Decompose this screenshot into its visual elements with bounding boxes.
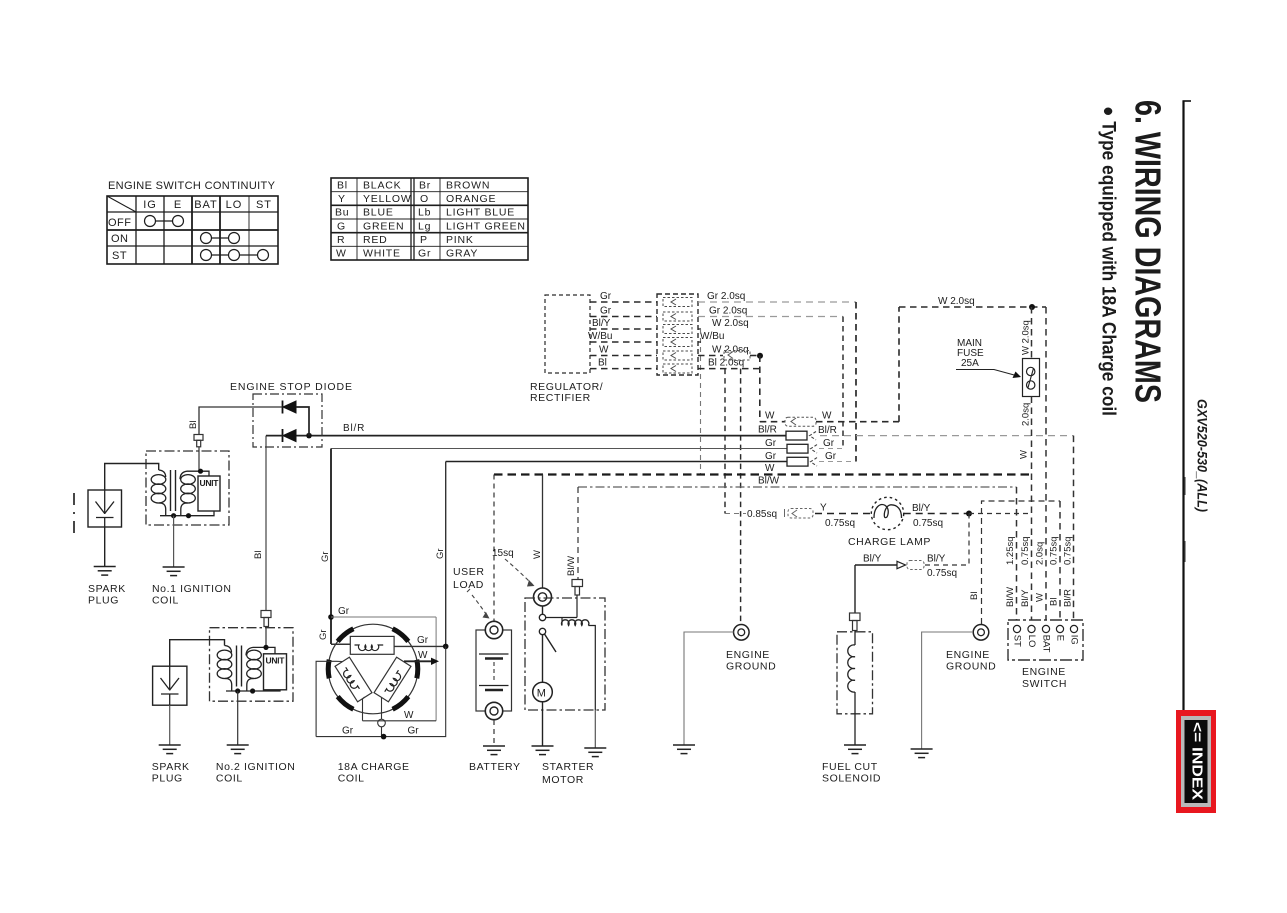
svg-text:Bl/R: Bl/R	[818, 425, 837, 436]
engine switch terminal labels	[1011, 635, 1079, 653]
wire Bl No2 coil drop	[265, 436, 267, 611]
wire Gr row2 drop	[842, 317, 844, 449]
spark plug 2 ground wire	[169, 705, 171, 745]
No2 coil inline connector	[261, 611, 271, 627]
fuel cut solenoid box	[837, 632, 873, 714]
svg-text:SPARK: SPARK	[88, 583, 126, 595]
engine stop diode box	[253, 394, 322, 447]
svg-text:Gr: Gr	[338, 606, 350, 617]
svg-text:Bl: Bl	[969, 592, 980, 600]
18A charge coil label	[338, 761, 410, 785]
junction dot Gr right	[443, 644, 449, 650]
relay contact link	[546, 617, 577, 619]
svg-text:G: G	[337, 220, 346, 232]
wire color code table text	[335, 180, 526, 260]
svg-text:W: W	[418, 650, 428, 661]
junction dot Bl/R at diode	[306, 433, 312, 439]
solenoid coil feed	[576, 595, 578, 618]
continuity row ST contacts BAT-LO-ST	[201, 250, 269, 261]
svg-text:● Type equipped with 18A Charg: ● Type equipped with 18A Charge coil	[1098, 106, 1120, 416]
spark plug 1 label	[88, 583, 126, 607]
svg-text:Gr: Gr	[765, 451, 777, 462]
wire W 2.0sq row3 vertical drop	[700, 329, 702, 475]
wire IG drop	[1073, 436, 1075, 620]
wire Bl/R solid run	[296, 435, 786, 437]
svg-text:OFF: OFF	[108, 217, 132, 229]
Y wire dashes to lamp	[815, 513, 872, 515]
spark plug 1 electrode symbol	[96, 490, 115, 527]
junction dot bottom	[381, 734, 387, 740]
svg-text:Gr: Gr	[600, 306, 612, 317]
harness wire labels right of connector	[700, 291, 749, 369]
wire Bl 2.0sq row6 horizontal	[698, 368, 760, 370]
starter motor label	[542, 761, 594, 786]
svg-text:STARTER: STARTER	[542, 761, 594, 773]
wire Bl/W drop to starter connector	[577, 487, 579, 579]
svg-text:YELLOW: YELLOW	[363, 193, 412, 205]
wire Bl row6 drop to engine ground	[740, 369, 742, 624]
charge lamp	[871, 497, 903, 529]
D2 left corner to No2 drop	[266, 435, 283, 437]
main fuse body	[1023, 359, 1040, 397]
battery ground	[483, 746, 505, 755]
No1 coil ground wire	[173, 516, 175, 567]
svg-text:ENGINE STOP DIODE: ENGINE STOP DIODE	[230, 381, 353, 393]
wire W riser to top run	[898, 307, 900, 422]
No1 coil core	[170, 470, 172, 511]
stator frame top line	[331, 616, 436, 618]
wire battery riser dashed	[493, 475, 495, 622]
svg-text:W: W	[1019, 450, 1030, 459]
right engine ground earth	[911, 749, 933, 758]
main fuse label	[957, 338, 984, 369]
svg-text:2.0sq: 2.0sq	[1035, 542, 1046, 565]
svg-text:0.75sq: 0.75sq	[1063, 536, 1074, 565]
battery top terminal	[476, 630, 512, 711]
Gr bullet connector 2	[787, 457, 817, 466]
solenoid coil	[562, 620, 589, 626]
left charge winding	[335, 657, 372, 702]
Gr bottom return line	[316, 646, 446, 736]
svg-text:USER: USER	[453, 566, 485, 578]
svg-text:Bl/Y: Bl/Y	[912, 503, 931, 514]
svg-text:UNIT: UNIT	[200, 478, 220, 488]
svg-text:GRAY: GRAY	[446, 248, 478, 260]
svg-text:Gr: Gr	[823, 438, 835, 449]
continuity row OFF contacts IG-E	[145, 216, 184, 227]
svg-text:IG: IG	[143, 199, 157, 211]
svg-text:MOTOR: MOTOR	[542, 774, 584, 786]
right engine ground label	[946, 649, 996, 673]
No1 coil bottom bus	[160, 511, 214, 516]
No1 unit top wire and dot	[187, 471, 209, 476]
svg-text:W: W	[765, 463, 775, 474]
right charge winding	[374, 657, 411, 702]
svg-text:Y: Y	[338, 193, 346, 205]
fuel solenoid ground	[844, 745, 866, 754]
svg-text:0.75sq: 0.75sq	[927, 568, 957, 579]
svg-text:6. WIRING DIAGRAMS: 6. WIRING DIAGRAMS	[1128, 100, 1169, 403]
No1 coil primary winding	[180, 471, 195, 516]
svg-text:Lg: Lg	[418, 220, 431, 232]
svg-text:SPARK: SPARK	[152, 761, 190, 773]
right engine ground symbol	[973, 625, 989, 641]
wire LO drop with fuse riser	[1031, 307, 1033, 359]
wire connector to No1 unit	[198, 447, 200, 471]
wire Gr thin dashed to drop	[819, 448, 843, 450]
wire lamp to junction	[904, 513, 969, 515]
W link inline connector	[785, 417, 816, 426]
svg-text:E: E	[1054, 635, 1065, 641]
svg-text:Bl: Bl	[188, 421, 199, 429]
svg-text:Gr: Gr	[318, 629, 329, 640]
junction dot Gr at top	[328, 614, 334, 620]
spark plug 2 ground	[159, 745, 181, 754]
solenoid coil risers	[561, 618, 563, 626]
lamp coil squiggle	[355, 645, 384, 651]
svg-text:0.85sq: 0.85sq	[747, 509, 777, 520]
wire Bl row6 drop to lamp line	[724, 369, 726, 514]
regulator output wires (6 stubs)	[590, 302, 657, 369]
diode D1	[283, 401, 297, 414]
junction dot Bl/Y	[966, 511, 972, 517]
svg-text:No.2 IGNITION: No.2 IGNITION	[216, 761, 296, 773]
battery ground wire	[493, 720, 495, 746]
spark plug 2 electrode symbol	[161, 666, 180, 705]
user load arrow	[467, 589, 490, 619]
svg-text:GREEN: GREEN	[363, 220, 404, 232]
Bl/R bullet connector	[786, 431, 816, 440]
svg-text:Bl: Bl	[253, 551, 264, 559]
svg-text:ENGINE SWITCH CONTINUITY: ENGINE SWITCH CONTINUITY	[108, 180, 276, 192]
wire BAT drop	[1045, 307, 1047, 620]
wire W link horizontal	[760, 421, 785, 423]
Gr thin bullet connector	[787, 444, 817, 453]
svg-text:W: W	[765, 411, 775, 422]
user load label	[453, 566, 485, 591]
svg-text:Bl: Bl	[598, 358, 607, 369]
svg-text:W: W	[404, 710, 414, 721]
wire Gr thin solid run	[331, 448, 790, 450]
engine switch wire labels	[1005, 536, 1074, 607]
Y line connector	[785, 509, 814, 519]
svg-text:SOLENOID: SOLENOID	[822, 773, 881, 785]
Bl/Y inline connector arrow	[897, 561, 924, 570]
main fuse leader arrow	[956, 370, 1021, 379]
wire Gr 2.0sq row1 horizontal	[698, 301, 856, 303]
left engine ground symbol	[734, 625, 750, 641]
svg-text:LOAD: LOAD	[453, 579, 484, 591]
fuel solenoid winding	[848, 645, 855, 692]
stator circle	[328, 624, 418, 714]
continuity table row labels	[108, 217, 132, 262]
relay arm	[545, 634, 557, 652]
svg-text:0.75sq: 0.75sq	[913, 518, 943, 529]
svg-text:SWITCH: SWITCH	[1022, 678, 1067, 690]
connector pins	[663, 298, 692, 374]
svg-text:ON: ON	[111, 233, 129, 245]
No.1 ignition coil box	[146, 451, 229, 525]
svg-text:COIL: COIL	[152, 595, 179, 607]
svg-text:P: P	[420, 234, 428, 246]
wire junction to LO drop	[969, 513, 1032, 515]
svg-text:Bl: Bl	[1049, 598, 1060, 606]
svg-text:WHITE: WHITE	[363, 248, 401, 260]
svg-text:15sq: 15sq	[492, 548, 514, 559]
svg-text:ST: ST	[1011, 635, 1022, 647]
svg-text:COIL: COIL	[338, 773, 365, 785]
svg-text:GXV520-530_(ALL): GXV520-530_(ALL)	[1195, 399, 1210, 512]
6-pin connector housing	[657, 294, 698, 375]
wire W link to corner	[816, 421, 899, 423]
wire Gr thick charge coil riser	[330, 449, 332, 645]
wire ST drop	[1016, 487, 1018, 620]
No2 coil ground wire	[237, 691, 239, 745]
svg-text:BLACK: BLACK	[363, 180, 401, 192]
svg-text:1.25sq: 1.25sq	[1005, 536, 1016, 565]
regulator wire labels left of connector	[588, 291, 612, 369]
wire W starter riser	[542, 475, 544, 589]
battery cells	[479, 654, 509, 690]
svg-text:Gr: Gr	[435, 548, 446, 559]
svg-text:0.75sq: 0.75sq	[1049, 536, 1060, 565]
svg-text:Gr: Gr	[342, 726, 354, 737]
svg-text:O: O	[420, 193, 429, 205]
svg-text:Bl/R: Bl/R	[1063, 589, 1074, 607]
No.1 ignition coil label	[152, 583, 232, 607]
starter motor ground	[532, 746, 554, 755]
Bl E-terminal link wire	[982, 501, 1061, 624]
relay contact bottom	[539, 628, 545, 634]
junction dot top W	[1029, 304, 1035, 310]
wire W 2.0sq top run	[899, 306, 1046, 308]
svg-text:ST: ST	[112, 250, 127, 262]
W bottom line	[363, 720, 437, 722]
No.2 ignition coil label	[216, 761, 296, 785]
connector pin arrows	[671, 299, 676, 372]
lamp coil left stub	[331, 643, 350, 645]
svg-text:W: W	[599, 345, 609, 356]
wire Bl/R dashed run to IG	[820, 435, 1074, 437]
svg-text:Bl 2.0sq: Bl 2.0sq	[708, 358, 744, 369]
svg-text:Bl: Bl	[337, 180, 348, 192]
svg-text:FUEL CUT: FUEL CUT	[822, 761, 878, 773]
lamp coil right stub Gr	[394, 645, 446, 647]
wire W 2.0sq row5 to junction	[750, 355, 760, 357]
svg-text:25A: 25A	[961, 358, 979, 369]
svg-text:Y: Y	[820, 503, 827, 514]
engine switch terminals	[1013, 625, 1077, 632]
svg-text:Lb: Lb	[418, 207, 431, 219]
wire from D1 to No1 coil	[199, 407, 283, 435]
svg-text:PLUG: PLUG	[152, 773, 183, 785]
regulator/rectifier label	[530, 381, 603, 404]
svg-text:M: M	[537, 688, 546, 700]
page edge artifact dashes	[73, 493, 75, 533]
wire color code table grid	[331, 178, 528, 260]
svg-text:LO: LO	[1026, 635, 1037, 648]
svg-text:PLUG: PLUG	[88, 595, 119, 607]
svg-text:LO: LO	[226, 199, 243, 211]
svg-text:W 2.0sq: W 2.0sq	[938, 296, 975, 307]
continuity table header labels	[143, 199, 272, 211]
svg-text:Bl/W: Bl/W	[758, 476, 780, 487]
spark plug 1 wire	[105, 464, 159, 491]
INDEX button	[1176, 710, 1216, 813]
svg-text:0.75sq: 0.75sq	[825, 518, 855, 529]
No2 coil bottom bus	[226, 690, 280, 691]
wire W 2.0sq row5 horizontal	[698, 355, 723, 357]
spark plug 1 ground wire	[104, 527, 106, 567]
engine switch continuity table grid	[107, 196, 278, 264]
starter relay wire from terminal	[542, 606, 544, 614]
solenoid winding wire top	[854, 631, 856, 646]
No2 coil ground	[227, 745, 249, 754]
wire Bl/Y down to solenoid line	[968, 514, 970, 566]
right winding outer lead W arrow	[404, 660, 432, 662]
wire Gr row1 drop	[855, 302, 857, 462]
svg-text:18A CHARGE: 18A CHARGE	[338, 761, 410, 773]
No1 coil inline connector	[194, 435, 203, 447]
svg-text:PINK: PINK	[446, 234, 474, 246]
svg-text:W: W	[822, 411, 832, 422]
regulator/rectifier box	[545, 295, 590, 373]
solenoid ground	[584, 748, 606, 757]
svg-text:W 2.0sq: W 2.0sq	[712, 318, 749, 329]
No2 UNIT box	[264, 654, 287, 690]
left winding outer lead	[316, 661, 342, 736]
svg-text:W: W	[532, 550, 543, 559]
svg-text:ST: ST	[256, 199, 272, 211]
svg-text:R: R	[337, 234, 345, 246]
wire Gr dashed to drop 2	[819, 461, 856, 463]
svg-text:Bl/W: Bl/W	[566, 556, 577, 576]
svg-text:W: W	[1035, 593, 1046, 602]
No2 unit top wire and dot	[253, 647, 275, 653]
No2 coil primary winding	[246, 647, 261, 691]
spark plug 1 box	[88, 490, 122, 527]
hop loop symbol	[378, 719, 386, 727]
wire W vertical from row5 dot	[759, 356, 761, 422]
battery bottom terminal	[485, 702, 502, 719]
svg-text:Gr: Gr	[765, 438, 777, 449]
svg-text:Gr: Gr	[825, 451, 837, 462]
lamp coil rectangle	[350, 636, 394, 654]
svg-text:2.0sq: 2.0sq	[1021, 403, 1032, 426]
wire Bl/W dash-dot run	[578, 486, 1017, 488]
svg-text:GROUND: GROUND	[726, 661, 776, 673]
svg-text:UNIT: UNIT	[266, 656, 286, 666]
spark plug 2 label	[152, 761, 190, 785]
motor feed wire	[542, 635, 544, 683]
wire Gr solid run	[446, 461, 787, 463]
svg-text:Bl/R: Bl/R	[758, 425, 777, 436]
svg-text:Gr 2.0sq: Gr 2.0sq	[709, 306, 747, 317]
motor circle M	[533, 682, 553, 702]
svg-text:Gr: Gr	[600, 291, 612, 302]
engine switch box	[1008, 620, 1083, 660]
svg-text:Gr: Gr	[418, 248, 431, 260]
svg-text:CHARGE LAMP: CHARGE LAMP	[848, 536, 931, 548]
wire connector to junction riser	[925, 564, 969, 566]
engine switch label	[1022, 666, 1067, 690]
motor ground wire	[542, 702, 544, 746]
svg-text:Bl/Y: Bl/Y	[592, 318, 611, 329]
Y wire to charge lamp	[725, 513, 746, 515]
junction dot W row5	[757, 353, 763, 359]
svg-text:Bu: Bu	[335, 207, 349, 219]
svg-text:W 2.0sq: W 2.0sq	[1021, 320, 1032, 355]
right winding inner lead	[381, 698, 383, 720]
No1 coil secondary winding	[151, 470, 166, 516]
pole shoe arcs	[328, 629, 418, 710]
svg-text:BLUE: BLUE	[363, 207, 394, 219]
right engine ground wire	[922, 632, 973, 749]
svg-text:W/Bu: W/Bu	[588, 331, 612, 342]
svg-text:ORANGE: ORANGE	[446, 193, 496, 205]
fuel solenoid Bl/Y horizontal	[855, 564, 897, 566]
svg-text:W/Bu: W/Bu	[700, 331, 724, 342]
fuel cut solenoid label	[822, 761, 881, 785]
wire W main bold dashed	[494, 473, 1032, 475]
page border rule	[1182, 101, 1184, 711]
svg-text:LIGHT BLUE: LIGHT BLUE	[446, 207, 515, 219]
No1 coil ground	[163, 567, 185, 576]
svg-text:Bl/W: Bl/W	[1005, 587, 1016, 607]
svg-text:RECTIFIER: RECTIFIER	[530, 392, 591, 404]
fuel solenoid connector	[850, 613, 861, 631]
svg-text:Gr: Gr	[417, 635, 429, 646]
svg-text:Bl/Y: Bl/Y	[863, 554, 882, 565]
starter terminal circle	[534, 588, 552, 606]
left engine ground label	[726, 649, 776, 673]
svg-text:COIL: COIL	[216, 773, 243, 785]
left engine ground wire	[684, 632, 734, 745]
svg-text:ENGINE: ENGINE	[1022, 666, 1066, 678]
wire W 2.0sq row3 stub	[698, 328, 701, 330]
wire E drop	[1059, 501, 1061, 620]
svg-text:Br: Br	[419, 180, 431, 192]
D1 right riser to Bl/R	[296, 407, 309, 436]
starter Bl/W connector	[572, 580, 583, 596]
No2 coil secondary winding	[217, 646, 232, 692]
stator frame right line	[435, 617, 437, 721]
svg-text:BAT: BAT	[194, 199, 218, 211]
solenoid ground wire	[594, 710, 596, 748]
spark plug 1 ground	[94, 567, 116, 576]
continuity row ON contacts BAT-LO	[201, 233, 240, 244]
svg-text:Gr: Gr	[320, 551, 331, 562]
svg-text:Bl/Y: Bl/Y	[927, 554, 946, 565]
svg-text:IG: IG	[1068, 635, 1079, 645]
15sq arrow	[505, 559, 535, 587]
wire W/Bu row4 stub	[698, 341, 701, 343]
svg-text:<= INDEX: <= INDEX	[1189, 722, 1205, 800]
starter motor box	[525, 598, 605, 710]
No1 UNIT box	[198, 476, 220, 511]
wire Gr 2.0sq row2 horizontal	[698, 316, 843, 318]
spark plug 2 box	[153, 666, 187, 705]
svg-text:ENGINE: ENGINE	[946, 649, 990, 661]
svg-text:No.1 IGNITION: No.1 IGNITION	[152, 583, 232, 595]
row5 inline connector	[724, 351, 750, 361]
No2 coil core	[236, 646, 238, 687]
left engine ground earth	[673, 745, 695, 754]
svg-text:Bl/R: Bl/R	[343, 423, 365, 434]
svg-text:ENGINE: ENGINE	[726, 649, 770, 661]
left winding inner lead	[363, 697, 365, 721]
svg-text:BAT: BAT	[1040, 635, 1051, 653]
